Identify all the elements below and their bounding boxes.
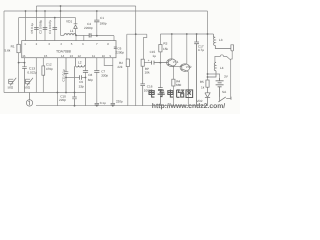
node dot battery branch — [207, 73, 209, 75]
svg-text:VT1: VT1 — [173, 60, 179, 64]
wire pin8 corner — [113, 36, 115, 41]
wire R3 bottom to base node — [159, 52, 161, 88]
wire RP wiper — [144, 62, 151, 64]
watermark 电子电路网 — [149, 90, 193, 98]
wire rail C extension to VD1 — [61, 17, 76, 19]
transistor VT2 — [180, 64, 190, 72]
node dot 135.7,34.2 — [135, 33, 137, 35]
char wang — [186, 90, 193, 98]
node 1 circled — [26, 93, 32, 107]
capacitor C13 — [22, 63, 27, 93]
capacitor C4 plates — [94, 20, 99, 22]
resistor R2 — [126, 59, 129, 67]
resistor R4 — [172, 66, 174, 79]
svg-text:220p: 220p — [59, 98, 66, 102]
svg-text:L4: L4 — [220, 66, 224, 70]
svg-text:L3: L3 — [219, 38, 223, 42]
wire drop x=96.8 C1 — [96, 11, 98, 36]
node dot L4 left — [207, 76, 209, 78]
capacitor C2 — [43, 28, 48, 30]
svg-text:2200p: 2200p — [84, 26, 93, 30]
wire pin5 tick — [75, 35, 77, 40]
wire R3 drop — [159, 34, 161, 45]
svg-text:L2: L2 — [78, 60, 82, 64]
svg-text:50Ω: 50Ω — [24, 85, 30, 89]
pin numbers bottom row — [22, 54, 111, 58]
svg-text:16: 16 — [22, 54, 26, 58]
capacitor near rail right plates — [111, 103, 115, 105]
pin numbers top row — [24, 42, 109, 46]
svg-text:VT2: VT2 — [186, 65, 192, 69]
wire drop pin2 C5 — [35, 6, 37, 41]
node dot C9-C8 junction — [85, 77, 87, 79]
svg-text:R5: R5 — [200, 80, 204, 84]
wire x=135.7 drop full — [135, 6, 137, 106]
wire pin10 drop C7 — [96, 58, 98, 104]
svg-text:C8: C8 — [88, 73, 92, 77]
node dot at 18.6,62.6 — [18, 62, 20, 64]
char lu — [177, 90, 184, 97]
transistor VT1 — [167, 59, 177, 67]
wire pin11 drop C8 — [85, 65, 87, 105]
wire VD1 branch x=75.5 — [75, 18, 77, 36]
node dot VT2 collector — [186, 33, 188, 35]
char dian1 — [149, 90, 155, 98]
node dot at 24.5,62.6 — [24, 62, 26, 64]
wire left earphone bus y=92.5 — [4, 92, 86, 94]
wire pin6 tick — [83, 36, 85, 41]
earphone jack pin XS — [231, 45, 234, 51]
svg-text:12: 12 — [78, 54, 82, 58]
wire left border vertical x=4 — [3, 11, 5, 93]
capacitor C8 plates — [83, 71, 88, 73]
node dot bus-66 — [65, 92, 67, 94]
node dots on top rails — [25, 10, 27, 12]
svg-text:VD1: VD1 — [66, 19, 72, 23]
ground rail y=105.7 — [36, 105, 208, 107]
wire bus to ground rail x=57.4 — [56, 58, 58, 106]
battery E — [216, 78, 224, 98]
capacitor C11 — [64, 58, 69, 93]
switch SA — [218, 97, 231, 102]
node dot C17 top — [196, 33, 198, 35]
svg-text:SA: SA — [222, 90, 227, 94]
svg-text:22k: 22k — [117, 65, 122, 69]
resistor R5 — [206, 80, 209, 87]
inductor L1 — [64, 34, 76, 36]
svg-text:C5 0.1μ: C5 0.1μ — [30, 23, 34, 34]
wire VT1 emitter to VT2 base — [173, 65, 181, 67]
svg-text:220p: 220p — [116, 100, 123, 104]
svg-text:L1: L1 — [70, 29, 74, 33]
node dot rail 112.8 — [112, 105, 114, 107]
node dot R3 base — [160, 62, 162, 64]
wire R1 bottom — [18, 53, 20, 93]
wire drop pin1 — [25, 11, 27, 41]
wire audio feed y=34.2 left segment — [127, 34, 147, 59]
inductor L4 — [208, 62, 217, 77]
svg-text:TDA7088: TDA7088 — [56, 50, 71, 54]
capacitor C9 plates vertical — [80, 75, 82, 80]
wire drop pin3 C2 — [44, 11, 46, 41]
capacitor C7 plates — [94, 71, 99, 73]
node dot rail 96.8 — [96, 105, 98, 107]
svg-text:C1: C1 — [100, 16, 104, 20]
svg-text:680: 680 — [176, 83, 181, 87]
earphone B2 — [26, 78, 34, 86]
svg-text:82p: 82p — [88, 78, 93, 82]
wire pin14 drop x=36.3 — [35, 58, 37, 93]
svg-text:+: + — [148, 59, 150, 63]
svg-text:4.7μ: 4.7μ — [198, 48, 204, 52]
svg-text:C2 0.068μ: C2 0.068μ — [38, 20, 42, 34]
wire pin16 drop — [24, 58, 26, 63]
capacitor near rail left plates — [95, 103, 99, 105]
node dot rail C10 — [74, 105, 76, 107]
char dian2 — [168, 90, 174, 98]
svg-text:180p: 180p — [100, 22, 107, 26]
wire C9 branch y=77.5 — [66, 77, 86, 79]
IC U1 TDA7088 body — [22, 41, 116, 58]
svg-text:470p: 470p — [46, 67, 53, 71]
capacitor C15 electrolytic — [152, 61, 167, 65]
svg-text:14: 14 — [61, 54, 65, 58]
svg-text:R1: R1 — [11, 45, 15, 49]
capacitor C6 plates at IC right — [114, 47, 117, 48]
inductor L3 — [213, 34, 231, 49]
wire jack pin bottom lead — [231, 51, 233, 59]
svg-text:10k: 10k — [145, 70, 150, 74]
wire R2 bottom — [127, 67, 129, 106]
wire R3 feed y=34 right segment — [160, 33, 213, 35]
svg-text:13: 13 — [70, 54, 74, 58]
diode VD1 varactor — [74, 24, 78, 29]
svg-text:http://www.cndz2.com/: http://www.cndz2.com/ — [152, 103, 225, 110]
capacitor C3 — [53, 28, 58, 30]
inductor L2 — [76, 58, 86, 67]
wire x=112.8 drop — [112, 66, 114, 104]
svg-text:11: 11 — [92, 54, 95, 58]
wire VT1 collector up — [171, 34, 173, 60]
node dot bus-74.5? — [74, 92, 76, 94]
wire pin9-10 U link — [104, 58, 113, 66]
wire R1 top — [18, 18, 20, 45]
char zi — [158, 90, 165, 96]
svg-text:3V: 3V — [224, 75, 229, 79]
svg-text:330p: 330p — [101, 73, 108, 77]
wire battery branch — [208, 74, 220, 81]
wire right vertical x=207.5 — [207, 11, 209, 80]
capacitor C10 — [72, 66, 77, 106]
svg-text:15: 15 — [44, 54, 48, 58]
resistor R3 — [159, 45, 162, 52]
svg-text:R3: R3 — [163, 41, 167, 45]
capacitor C4 series plates on tank wire — [89, 33, 91, 37]
node dot R4 — [173, 66, 175, 68]
capacitor C5 — [34, 28, 39, 30]
svg-text:5.6k: 5.6k — [5, 49, 11, 53]
wire VT2 collector up — [186, 34, 188, 64]
capacitor base bypass plates — [158, 88, 163, 106]
potentiometer RP — [141, 59, 144, 66]
wire top rail B y=11 — [4, 10, 208, 12]
wire sleeve drop — [230, 59, 232, 98]
svg-text:15k: 15k — [163, 47, 168, 51]
svg-text:10: 10 — [102, 54, 106, 58]
node dot collector — [171, 33, 173, 35]
wire tank horizontal y=35.6 — [61, 34, 115, 36]
capacitor C12 body — [42, 58, 44, 93]
earphone B1 — [9, 78, 17, 86]
wire VT2 emitter down — [187, 72, 189, 106]
svg-text:C3 0.047μ: C3 0.047μ — [48, 20, 52, 34]
svg-text:1k: 1k — [201, 86, 205, 90]
resistor R1 — [17, 44, 20, 52]
capacitor C17 electrolytic — [194, 34, 199, 106]
wire jack sleeve path — [215, 55, 231, 62]
capacitor C16 — [140, 66, 145, 106]
svg-text:33p: 33p — [79, 84, 84, 88]
svg-text:2200p: 2200p — [115, 51, 124, 55]
diode VD2 — [205, 87, 210, 106]
wire jog y=62.6 — [19, 62, 25, 64]
svg-text:1μ: 1μ — [152, 54, 156, 58]
wire top rail A y=6 — [36, 5, 135, 7]
svg-text:C11 0.1μ: C11 0.1μ — [62, 69, 66, 81]
wire drop pin4 C3 — [54, 18, 56, 41]
svg-text:0.1μ: 0.1μ — [100, 101, 106, 105]
wire rail C y=17.6 — [19, 17, 61, 19]
svg-text:0.022μ: 0.022μ — [27, 71, 37, 75]
svg-text:50Ω: 50Ω — [8, 85, 14, 89]
wire drop x=60.5 to L1 — [60, 6, 62, 35]
node dot right rail cross — [207, 33, 209, 35]
